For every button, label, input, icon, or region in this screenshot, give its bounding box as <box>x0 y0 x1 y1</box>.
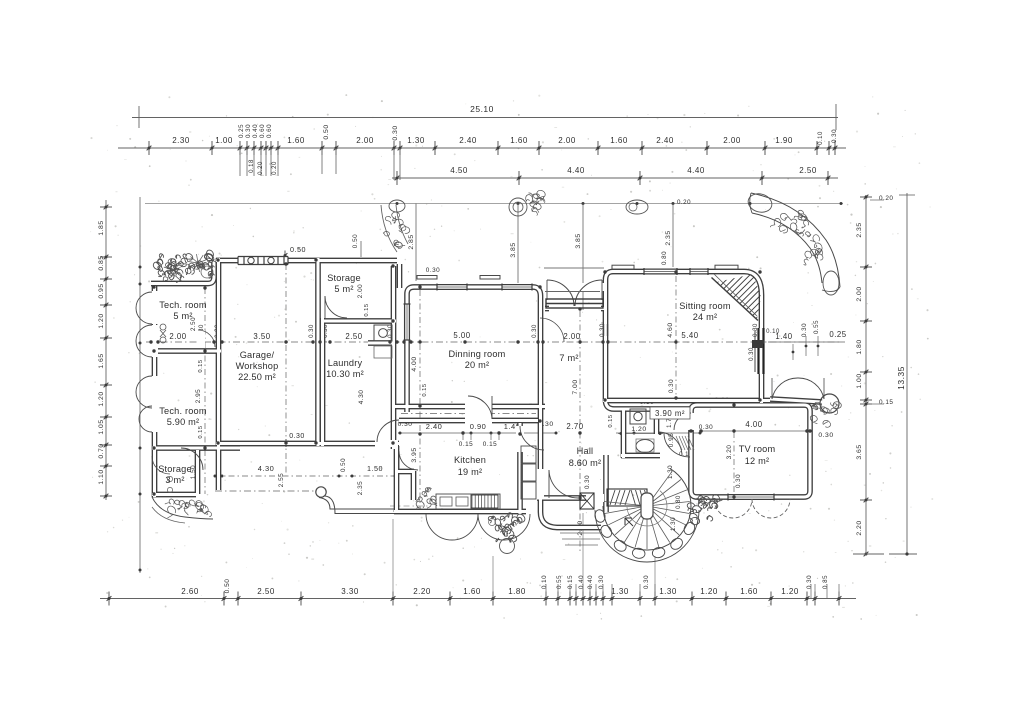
svg-text:0.30: 0.30 <box>245 124 252 138</box>
svg-text:8.60 m²: 8.60 m² <box>569 458 602 468</box>
svg-text:5 m²: 5 m² <box>334 284 353 294</box>
svg-text:0.15: 0.15 <box>364 303 370 316</box>
svg-text:Tech. room: Tech. room <box>159 406 207 416</box>
svg-text:0.15: 0.15 <box>567 575 574 589</box>
svg-text:2.40: 2.40 <box>459 136 477 145</box>
svg-text:1.05: 1.05 <box>98 419 105 434</box>
svg-text:19 m²: 19 m² <box>458 467 483 477</box>
svg-text:4.50: 4.50 <box>450 166 468 175</box>
svg-text:1.65: 1.65 <box>98 353 105 368</box>
svg-text:3.85: 3.85 <box>575 233 582 248</box>
svg-text:1.60: 1.60 <box>740 587 758 596</box>
svg-text:0.30: 0.30 <box>598 575 605 589</box>
svg-text:1.60: 1.60 <box>610 136 628 145</box>
svg-text:4.00: 4.00 <box>411 356 418 371</box>
svg-text:2.00: 2.00 <box>356 136 374 145</box>
svg-text:2.50: 2.50 <box>345 332 362 341</box>
svg-text:2.00: 2.00 <box>357 284 364 298</box>
svg-text:0.55: 0.55 <box>813 320 820 334</box>
svg-text:0.15: 0.15 <box>608 414 614 427</box>
svg-text:22.50 m²: 22.50 m² <box>238 372 276 382</box>
svg-text:0.20: 0.20 <box>258 161 264 175</box>
svg-text:1.20: 1.20 <box>700 587 718 596</box>
svg-text:2.95: 2.95 <box>195 389 202 403</box>
svg-text:4.60: 4.60 <box>667 322 674 337</box>
svg-text:Sitting room: Sitting room <box>679 301 731 311</box>
svg-text:2.00: 2.00 <box>558 136 576 145</box>
svg-text:0.60: 0.60 <box>266 124 273 138</box>
svg-text:2.50: 2.50 <box>257 587 275 596</box>
svg-text:1.30: 1.30 <box>611 587 629 596</box>
svg-text:25.10: 25.10 <box>470 104 494 114</box>
svg-text:3.90 m²: 3.90 m² <box>655 409 685 418</box>
svg-text:2.00: 2.00 <box>169 332 186 341</box>
svg-text:3.65: 3.65 <box>856 444 863 459</box>
svg-text:Workshop: Workshop <box>236 361 279 371</box>
svg-text:0.10: 0.10 <box>541 575 548 589</box>
svg-text:0.10: 0.10 <box>818 131 824 145</box>
svg-text:5.40: 5.40 <box>681 331 698 340</box>
svg-text:3.85: 3.85 <box>510 242 517 257</box>
svg-text:2.35: 2.35 <box>856 222 863 237</box>
svg-text:0.30: 0.30 <box>668 379 675 393</box>
svg-text:0.15: 0.15 <box>459 441 473 448</box>
svg-text:0.40: 0.40 <box>587 575 594 589</box>
svg-text:0.18: 0.18 <box>249 159 255 173</box>
svg-text:0.95: 0.95 <box>98 283 105 298</box>
svg-text:1.30: 1.30 <box>407 136 425 145</box>
svg-text:1.20: 1.20 <box>98 313 105 328</box>
svg-text:3.50: 3.50 <box>253 332 270 341</box>
svg-text:2.55: 2.55 <box>278 473 285 487</box>
svg-text:0.15: 0.15 <box>483 441 497 448</box>
svg-text:0.15: 0.15 <box>198 425 204 438</box>
svg-text:0.50: 0.50 <box>352 234 359 248</box>
svg-text:1.50: 1.50 <box>367 464 383 473</box>
svg-text:0.55: 0.55 <box>556 575 563 589</box>
svg-text:2.50: 2.50 <box>799 166 817 175</box>
svg-text:0.30: 0.30 <box>818 432 833 439</box>
svg-text:0.30: 0.30 <box>801 323 808 337</box>
svg-text:2.00: 2.00 <box>856 286 863 301</box>
svg-text:2.00: 2.00 <box>563 332 580 341</box>
svg-text:0.30: 0.30 <box>426 267 440 274</box>
svg-text:Storage: Storage <box>158 464 192 474</box>
svg-text:0.20: 0.20 <box>272 161 278 175</box>
svg-text:Laundry: Laundry <box>328 358 363 368</box>
svg-text:1.00: 1.00 <box>856 373 863 388</box>
svg-text:20 m²: 20 m² <box>465 360 490 370</box>
svg-text:2.40: 2.40 <box>656 136 674 145</box>
svg-text:4.40: 4.40 <box>687 166 705 175</box>
svg-text:5.00: 5.00 <box>453 331 470 340</box>
svg-text:2.20: 2.20 <box>856 520 863 535</box>
svg-text:1.30: 1.30 <box>659 587 677 596</box>
svg-text:0.40: 0.40 <box>578 575 585 589</box>
svg-text:1.60: 1.60 <box>463 587 481 596</box>
svg-text:3.30: 3.30 <box>341 587 359 596</box>
svg-text:0.30: 0.30 <box>735 474 742 488</box>
svg-text:4.00: 4.00 <box>745 420 762 429</box>
svg-text:2.30: 2.30 <box>172 136 190 145</box>
svg-text:1.20: 1.20 <box>631 426 646 433</box>
svg-text:0.10: 0.10 <box>766 329 780 335</box>
svg-text:0.50: 0.50 <box>290 245 306 254</box>
svg-text:0.15: 0.15 <box>879 399 893 406</box>
svg-text:12 m²: 12 m² <box>745 456 770 466</box>
svg-text:1.60: 1.60 <box>287 136 305 145</box>
svg-text:1.10: 1.10 <box>98 469 105 484</box>
svg-text:3.20: 3.20 <box>726 445 733 460</box>
svg-text:0.25: 0.25 <box>829 330 846 339</box>
svg-text:Hall: Hall <box>577 446 594 456</box>
svg-text:1.20: 1.20 <box>781 587 799 596</box>
svg-text:10.30 m²: 10.30 m² <box>326 369 364 379</box>
svg-text:2.00: 2.00 <box>723 136 741 145</box>
svg-text:0.20: 0.20 <box>677 199 691 206</box>
svg-text:Dinning room: Dinning room <box>448 349 505 359</box>
svg-text:0.80: 0.80 <box>661 251 668 265</box>
svg-text:Garage/: Garage/ <box>240 350 275 360</box>
svg-text:0.30: 0.30 <box>831 129 838 143</box>
svg-text:0.30: 0.30 <box>643 575 650 589</box>
svg-text:7 m²: 7 m² <box>559 353 578 363</box>
svg-text:4.30: 4.30 <box>258 464 275 473</box>
svg-text:0.25: 0.25 <box>238 124 245 138</box>
svg-text:2.85: 2.85 <box>408 234 415 249</box>
svg-text:1.85: 1.85 <box>98 220 105 235</box>
svg-text:4.40: 4.40 <box>567 166 585 175</box>
svg-text:0.60: 0.60 <box>259 124 266 138</box>
svg-text:0.20: 0.20 <box>879 195 893 202</box>
svg-text:TV room: TV room <box>739 444 776 454</box>
svg-text:2.70: 2.70 <box>566 422 583 431</box>
svg-text:0.30: 0.30 <box>806 575 813 589</box>
svg-text:0.15: 0.15 <box>198 359 204 372</box>
svg-text:Storage: Storage <box>327 273 361 283</box>
svg-text:0.30: 0.30 <box>289 433 305 440</box>
svg-text:Tech. room: Tech. room <box>159 300 207 310</box>
svg-text:0.50: 0.50 <box>340 458 347 472</box>
svg-text:0.15: 0.15 <box>422 383 428 396</box>
svg-text:0.30: 0.30 <box>749 347 755 361</box>
svg-text:4.30: 4.30 <box>358 390 365 405</box>
svg-text:13.35: 13.35 <box>896 366 906 390</box>
svg-text:5 m²: 5 m² <box>173 311 192 321</box>
svg-text:0.40: 0.40 <box>252 124 259 138</box>
svg-text:1.60: 1.60 <box>510 136 528 145</box>
svg-text:1.20: 1.20 <box>98 391 105 406</box>
svg-text:Kitchen: Kitchen <box>454 455 486 465</box>
svg-text:0.70: 0.70 <box>98 443 105 458</box>
svg-text:0.30: 0.30 <box>532 324 538 338</box>
svg-text:0.80: 0.80 <box>676 495 682 509</box>
svg-text:0.30: 0.30 <box>584 475 591 489</box>
svg-text:0.50: 0.50 <box>323 124 330 139</box>
svg-text:0.30: 0.30 <box>392 125 399 140</box>
svg-text:5.90 m²: 5.90 m² <box>167 417 200 427</box>
svg-text:1.90: 1.90 <box>775 136 793 145</box>
svg-text:1.00: 1.00 <box>215 136 233 145</box>
svg-text:2.60: 2.60 <box>181 587 199 596</box>
svg-text:0.85: 0.85 <box>822 575 829 589</box>
svg-text:0.85: 0.85 <box>98 255 105 270</box>
svg-text:24 m²: 24 m² <box>693 312 718 322</box>
svg-text:0.50: 0.50 <box>224 579 231 594</box>
svg-text:3 m²: 3 m² <box>165 475 184 485</box>
svg-text:1.80: 1.80 <box>856 339 863 354</box>
svg-text:3.95: 3.95 <box>411 447 418 462</box>
svg-text:0.30: 0.30 <box>309 324 315 338</box>
svg-text:2.20: 2.20 <box>413 587 431 596</box>
svg-text:2.35: 2.35 <box>665 230 672 245</box>
svg-text:2.35: 2.35 <box>357 481 364 495</box>
svg-text:1.80: 1.80 <box>508 587 526 596</box>
svg-text:7.00: 7.00 <box>572 379 579 394</box>
